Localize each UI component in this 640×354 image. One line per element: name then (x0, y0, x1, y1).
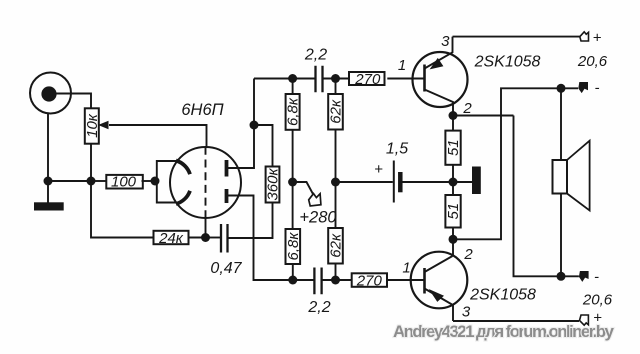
terminal minus bottom (filled arrow) (579, 271, 589, 282)
tube V1 anode bar lower (225, 189, 229, 203)
resistor R4 360k body (266, 167, 280, 203)
wire 6.8k bottom to bottom rail (292, 264, 294, 280)
wire top output plus (453, 36, 581, 38)
wire top rail right (323, 78, 350, 80)
svg-text:1: 1 (398, 57, 406, 74)
resistor R5 6.8k top body (286, 94, 300, 130)
wire bottom rail to 270 (322, 279, 352, 281)
node mid right (449, 178, 458, 187)
+280 open arrowhead (309, 194, 321, 206)
wire node B down to 24k (91, 181, 154, 238)
wire node to 6.8k top (292, 79, 294, 95)
wire +280 node to 6.8k bottom (292, 182, 294, 229)
wire 270 to FET1 gate (387, 78, 424, 80)
svg-text:Andrey4321 для forum.onliner.b: Andrey4321 для forum.onliner.by (393, 322, 615, 341)
wire 51 top to mid node (452, 165, 454, 182)
capacitor C2 2.2 top plates (316, 66, 323, 93)
resistor R10 270 bottom body (352, 273, 387, 287)
svg-text:2,2: 2,2 (307, 299, 330, 316)
svg-text:2: 2 (463, 246, 473, 263)
tube V1 grid arc lower (176, 191, 190, 204)
wire battery left (336, 181, 393, 183)
svg-text:+: + (593, 30, 602, 47)
svg-text:0,47: 0,47 (210, 260, 242, 277)
svg-text:270: 270 (356, 273, 383, 290)
svg-text:-: - (594, 269, 599, 286)
node 360k tap (250, 121, 259, 130)
terminal plus top (open arrow) (580, 32, 589, 41)
svg-text:6,8к: 6,8к (285, 232, 302, 261)
wire wiper to tube grid top (109, 125, 207, 148)
wire 62k top to battery node (335, 130, 337, 183)
wire bottom output plus (453, 320, 579, 322)
svg-text:20,6: 20,6 (582, 292, 613, 309)
wire tube bottom to node D (205, 218, 207, 238)
node battery left (331, 178, 340, 187)
svg-text:+: + (374, 161, 383, 178)
speaker LS1 horn (567, 141, 590, 211)
svg-text:2: 2 (462, 100, 472, 117)
wire drain node right and up to minus top (453, 88, 578, 239)
node speaker bottom (557, 272, 566, 281)
capacitor C1 0.47 plates (221, 224, 228, 253)
transistor Q2 envelope (411, 252, 468, 309)
tube V1 cathode dashed line (205, 147, 207, 220)
svg-text:3: 3 (441, 33, 450, 50)
terminal minus top (filled arrow) (578, 82, 588, 93)
node 62k bottom rail (331, 276, 340, 285)
tube V1 anode bar upper (225, 160, 229, 177)
node 6.8k top (288, 74, 297, 83)
transistor Q2 arrow (429, 289, 444, 302)
node C grid node (151, 177, 160, 186)
transistor Q2 gate bar (423, 268, 426, 294)
wire node A to node B (48, 180, 91, 182)
wire battery right (400, 181, 453, 183)
svg-text:51: 51 (445, 203, 462, 220)
wire node D to cap 0.47 (206, 237, 221, 239)
node A input/ground junction (44, 177, 53, 186)
svg-text:1,5: 1,5 (386, 141, 408, 158)
svg-text:62к: 62к (328, 233, 345, 258)
node +280 supply (288, 178, 297, 187)
node Q2 drain (449, 235, 458, 244)
wire top rail left (254, 78, 315, 80)
node Q1 source (449, 111, 458, 120)
wire 6.8k to +280 node (292, 130, 294, 182)
wire node A to ground (47, 181, 49, 203)
resistor R3 24k body (154, 231, 189, 244)
wire 51 bottom to Q2 drain node (452, 228, 454, 257)
wire battery node to 62k bottom (335, 182, 337, 228)
transistor Q1 arrow (430, 58, 444, 70)
resistor R9 270 top body (349, 72, 385, 85)
transistor Q2 source stroke (425, 289, 454, 322)
wire speaker top (560, 88, 562, 160)
resistor R7 62k top body (328, 94, 343, 130)
potentiometer R1 wiper arrow (98, 121, 109, 129)
wire grid bracket (157, 161, 179, 203)
tube V1 envelope (170, 147, 241, 218)
transistor Q1 source stroke (425, 90, 454, 116)
transistor Q1 drain stroke (425, 37, 453, 69)
svg-text:10к: 10к (84, 113, 101, 138)
svg-text:6Н6П: 6Н6П (181, 101, 223, 119)
svg-text:62к: 62к (328, 99, 345, 124)
wire Q1 source right (453, 115, 514, 117)
wire mid node to ground bar (453, 181, 472, 183)
resistor R11 51 top body (445, 131, 460, 165)
wire R2 to node C (142, 180, 156, 182)
resistor R6 6.8k bottom body (286, 229, 301, 264)
wire input to pot top (57, 94, 92, 110)
capacitor C3 2.2 bottom plates (314, 268, 321, 295)
ground (input) (34, 202, 64, 210)
wire Q1 source down to minus bottom (514, 116, 579, 277)
svg-text:24к: 24к (158, 230, 184, 247)
node 62k top (331, 74, 340, 83)
svg-text:-: - (595, 80, 600, 97)
node B grid divider junction (87, 177, 96, 186)
svg-text:6,8к: 6,8к (285, 97, 302, 126)
wire 62k bottom to bottom rail (335, 264, 337, 281)
wire pot bottom to node B (90, 144, 92, 182)
transistor Q2 drain stroke (425, 256, 453, 272)
wire mid node to 51 bottom (452, 182, 454, 195)
potentiometer R1 10k body (85, 108, 99, 143)
svg-text:100: 100 (111, 173, 137, 190)
wire node B to R2 (91, 180, 106, 182)
svg-text:1: 1 (402, 260, 410, 277)
terminal plus bottom (open arrow) (580, 315, 589, 325)
wire +280 arrow shaft (293, 182, 313, 194)
svg-text:2SK1058: 2SK1058 (469, 287, 536, 304)
ground bar (right) (472, 167, 481, 195)
input jack X1 center pin (41, 86, 56, 101)
svg-text:360к: 360к (265, 168, 282, 201)
transistor Q1 gate bar (423, 65, 426, 92)
battery G1 long plate (393, 161, 395, 203)
svg-text:270: 270 (354, 71, 381, 88)
transistor Q1 envelope (413, 52, 468, 107)
svg-text:3: 3 (462, 304, 471, 321)
wire speaker bottom (560, 194, 562, 277)
wire tap to 360k (254, 125, 273, 167)
wire anode2 down to bottom rail (228, 196, 315, 281)
svg-text:2,2: 2,2 (304, 47, 327, 64)
svg-text:51: 51 (445, 139, 462, 156)
wire 270 to FET2 gate (387, 279, 425, 281)
input jack X1 outer (30, 73, 71, 114)
wire node to 51 top (452, 116, 454, 131)
speaker LS1 box (553, 160, 568, 194)
node D cathode junction (201, 233, 210, 242)
battery G1 short plate (398, 172, 403, 192)
wire node to 62k top (335, 79, 337, 95)
node speaker top (557, 84, 566, 93)
wire input down (47, 114, 49, 181)
wire anode1 up to top rail (228, 79, 254, 169)
node 6.8k bottom rail (288, 276, 297, 285)
resistor R8 62k bottom body (328, 228, 343, 264)
wire 24k to node D (189, 237, 206, 239)
svg-text:+280: +280 (299, 209, 337, 227)
tube V1 grid arc upper (176, 161, 190, 175)
resistor R12 51 bottom body (445, 195, 460, 228)
resistor R2 100 body (106, 175, 143, 189)
svg-text:2SK1058: 2SK1058 (474, 54, 541, 71)
wire 360k to cap 0.47 (229, 203, 273, 239)
svg-text:20,6: 20,6 (577, 53, 608, 70)
